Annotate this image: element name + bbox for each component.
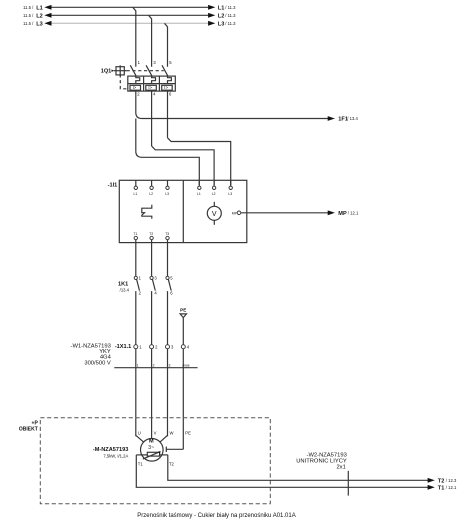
svg-text:11.5 /: 11.5 / (23, 13, 34, 18)
svg-text:L2: L2 (36, 13, 43, 19)
svg-text:4: 4 (153, 92, 156, 97)
svg-text:/ 12.3: / 12.3 (446, 478, 457, 483)
svg-text:L3: L3 (228, 192, 232, 196)
svg-text:11.5 /: 11.5 / (23, 21, 34, 26)
svg-text:2: 2 (153, 363, 155, 367)
svg-text:T1: T1 (438, 485, 445, 491)
svg-text:/ 13.4: / 13.4 (347, 116, 358, 121)
svg-text:PE: PE (180, 308, 186, 313)
svg-text:PE: PE (185, 430, 191, 435)
svg-text:11.5 /: 11.5 / (23, 5, 34, 10)
svg-text:3: 3 (154, 276, 157, 281)
svg-text:I>: I> (148, 85, 152, 90)
svg-text:L3: L3 (218, 21, 225, 27)
svg-text:L2: L2 (212, 192, 216, 196)
svg-text:2x1: 2x1 (336, 465, 345, 471)
svg-text:MP: MP (232, 211, 238, 215)
svg-text:2: 2 (139, 290, 142, 295)
svg-text:L1: L1 (36, 5, 43, 11)
svg-text:M: M (149, 439, 154, 445)
svg-text:1: 1 (137, 363, 139, 367)
svg-text:6: 6 (170, 290, 173, 295)
svg-text:U: U (138, 430, 141, 435)
svg-text:3~: 3~ (148, 445, 154, 451)
svg-text:3: 3 (153, 60, 156, 65)
svg-text:V: V (154, 430, 157, 435)
svg-text:OBIEKT: OBIEKT (19, 426, 38, 432)
svg-text:L2: L2 (149, 192, 153, 196)
svg-text:-1I1: -1I1 (108, 182, 118, 188)
svg-text:T1: T1 (138, 461, 144, 466)
svg-text:T2: T2 (149, 232, 153, 236)
svg-text:5: 5 (169, 60, 172, 65)
svg-text:2: 2 (137, 92, 140, 97)
svg-text:1: 1 (139, 345, 142, 350)
svg-text:/ 11.3: / 11.3 (225, 5, 236, 10)
svg-text:5: 5 (170, 276, 173, 281)
svg-text:4: 4 (154, 290, 157, 295)
svg-text:4: 4 (187, 345, 190, 350)
svg-text:-M-NZA57193: -M-NZA57193 (93, 447, 128, 453)
svg-text:L1: L1 (197, 192, 201, 196)
svg-text:L3: L3 (36, 21, 43, 27)
svg-text:/ 12.1: / 12.1 (348, 211, 359, 216)
svg-text:6: 6 (169, 92, 172, 97)
svg-text:W: W (170, 430, 174, 435)
svg-text:L2: L2 (218, 13, 225, 19)
svg-text:/ 12.1: / 12.1 (446, 485, 457, 490)
svg-text:L1: L1 (134, 192, 138, 196)
svg-text:T3: T3 (165, 232, 169, 236)
svg-text:-1X1.1: -1X1.1 (115, 344, 131, 350)
svg-text:/ 11.3: / 11.3 (225, 13, 236, 18)
svg-text:L3: L3 (165, 192, 169, 196)
svg-text:7,5kW, I/1,2A: 7,5kW, I/1,2A (103, 454, 128, 459)
svg-text:L1: L1 (218, 5, 225, 11)
svg-text:T2: T2 (169, 461, 175, 466)
svg-text:1: 1 (139, 276, 142, 281)
svg-text:2: 2 (155, 345, 158, 350)
svg-text:/ 11.3: / 11.3 (225, 21, 236, 26)
svg-text:I>: I> (164, 85, 168, 90)
svg-text:1Q1: 1Q1 (101, 68, 112, 74)
svg-text:300/500 V: 300/500 V (84, 361, 111, 367)
svg-text:I>: I> (133, 85, 137, 90)
svg-text:V: V (212, 211, 217, 218)
svg-text:3: 3 (171, 345, 174, 350)
svg-text:/13.4: /13.4 (120, 288, 130, 293)
svg-text:3: 3 (169, 363, 171, 367)
svg-text:1: 1 (138, 60, 141, 65)
svg-text:T1: T1 (134, 232, 138, 236)
svg-text:Przenośnik taśmowy - Cukier bi: Przenośnik taśmowy - Cukier biały na prz… (137, 513, 295, 519)
svg-text:T2: T2 (438, 478, 445, 484)
svg-text:MP: MP (338, 211, 347, 217)
